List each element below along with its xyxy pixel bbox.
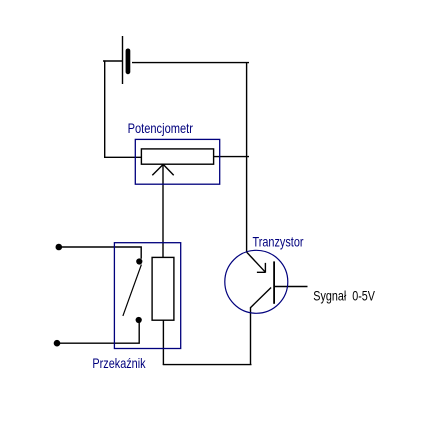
wire relay bottom terminal — [58, 323, 139, 344]
transistor base bar — [273, 261, 275, 303]
wire potentiometer right — [214, 156, 250, 158]
svg-text:Przekaźnik: Przekaźnik — [92, 355, 146, 371]
potentiometer R1 body — [141, 149, 213, 164]
svg-text:Sygnał 0-5V: Sygnał 0-5V — [313, 288, 375, 304]
wire relay top terminal — [60, 247, 141, 259]
wire right vertical — [246, 62, 248, 253]
transistor arrow barbs — [257, 263, 266, 273]
wire potentiometer left — [104, 156, 142, 158]
potentiometer box — [135, 139, 219, 184]
wire transistor emitter lead — [250, 307, 252, 365]
wire battery right — [132, 62, 249, 64]
svg-text:Tranzystor: Tranzystor — [253, 234, 304, 250]
relay switch top contact — [136, 258, 142, 264]
wire coil bottom — [162, 320, 164, 365]
relay terminal bottom — [54, 340, 61, 347]
battery B1 thin plate — [122, 36, 124, 84]
wire wiper to relay coil — [162, 164, 164, 258]
relay switch bottom contact — [136, 317, 142, 323]
relay box — [114, 243, 180, 349]
relay switch lever — [123, 265, 141, 316]
transistor emitter diagonal — [250, 288, 271, 308]
wire transistor base lead — [274, 286, 308, 288]
relay terminal top — [56, 244, 63, 251]
wire bottom horizontal — [163, 364, 252, 366]
relay coil — [152, 257, 174, 320]
potentiometer wiper arrow — [152, 164, 173, 175]
wire left vertical — [104, 60, 106, 158]
transistor collector diagonal — [247, 252, 266, 272]
wire battery left — [103, 60, 122, 62]
svg-text:Potencjometr: Potencjometr — [128, 120, 194, 136]
battery B1 thick plate — [126, 49, 131, 75]
transistor Q1 circle — [225, 250, 288, 313]
